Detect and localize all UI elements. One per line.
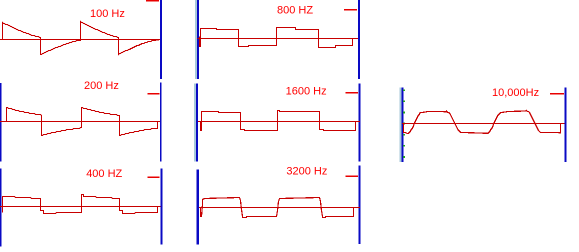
panel 200 Hz : dash marker — [148, 93, 160, 95]
panel 200 Hz : waveform trace — [7, 108, 161, 136]
panel 1600 Hz : dash marker — [346, 92, 358, 94]
panel 3200 Hz : zero line — [199, 207, 360, 209]
svg-text:100 Hz: 100 Hz — [90, 8, 125, 20]
panel 400 HZ : waveform trace — [3, 195, 161, 214]
panel 400 HZ : zero line — [0, 206, 161, 208]
panel 100 Hz : red marker bar top right — [146, 0, 159, 2]
panel 10,000Hz : waveform trace — [404, 111, 565, 134]
svg-text:400 HZ: 400 HZ — [86, 168, 122, 180]
panel 800 HZ : left boundary light blue — [195, 0, 197, 79]
panel 800 HZ : dash marker — [344, 9, 357, 10]
panel 800 HZ : waveform trace — [200, 28, 358, 48]
panel 200 Hz : left blue boundary — [0, 83, 2, 161]
panel 800 HZ : left boundary dark blue — [197, 0, 199, 79]
panel 200 Hz : zero line — [0, 121, 160, 123]
svg-text:1600 Hz: 1600 Hz — [286, 85, 327, 97]
svg-text:200 Hz: 200 Hz — [84, 80, 119, 92]
panel 3200 Hz : right blue boundary — [359, 165, 361, 244]
panel 400 HZ : dash marker — [148, 176, 160, 178]
panel 3200 Hz : dash marker — [346, 176, 358, 178]
panel 3200 Hz : left blue boundary — [197, 169, 199, 244]
panel 10,000Hz : left boundary light blue — [400, 88, 402, 162]
panel 100 Hz : right blue boundary — [160, 0, 162, 79]
panel 3200 Hz : waveform trace — [200, 198, 359, 218]
panel 200 Hz : right blue boundary — [160, 83, 162, 162]
panel 1600 Hz : left boundary dark blue — [196, 84, 198, 162]
panel 800 HZ : zero line — [198, 38, 358, 40]
panel 100 Hz : zero line — [0, 39, 160, 41]
panel 1600 Hz : left boundary light blue — [194, 84, 196, 162]
svg-text:3200 Hz: 3200 Hz — [286, 166, 327, 178]
panel 1600 Hz : right blue boundary — [359, 84, 361, 162]
panel 10,000Hz : dash marker — [550, 93, 564, 95]
svg-text:10,000Hz: 10,000Hz — [492, 87, 539, 99]
panel 1600 Hz : waveform trace — [199, 111, 359, 131]
panel 10,000Hz : left boundary dark blue — [402, 88, 404, 162]
panel 10,000Hz : green scale tick dots — [403, 89, 405, 157]
panel 10,000Hz : zero line — [402, 123, 565, 125]
panel 800 HZ : right blue boundary — [358, 0, 360, 79]
panel 400 HZ : left blue boundary — [0, 169, 2, 247]
panel 400 HZ : right blue boundary — [161, 168, 163, 244]
panel 100 Hz : waveform trace — [0, 22, 160, 55]
panel 10,000Hz : right blue boundary — [564, 88, 566, 162]
panel 1600 Hz : zero line — [198, 121, 360, 123]
svg-text:800 HZ: 800 HZ — [277, 5, 313, 17]
